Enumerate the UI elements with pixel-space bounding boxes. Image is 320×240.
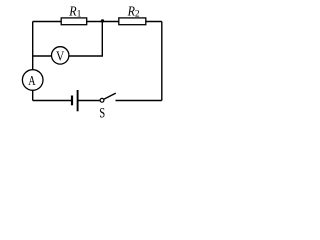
svg-text:R: R bbox=[68, 2, 76, 18]
svg-text:S: S bbox=[99, 104, 105, 121]
svg-text:2: 2 bbox=[135, 9, 140, 19]
svg-text:V: V bbox=[56, 48, 65, 63]
svg-text:R: R bbox=[127, 2, 135, 18]
svg-text:1: 1 bbox=[77, 10, 82, 20]
svg-text:A: A bbox=[28, 72, 35, 88]
